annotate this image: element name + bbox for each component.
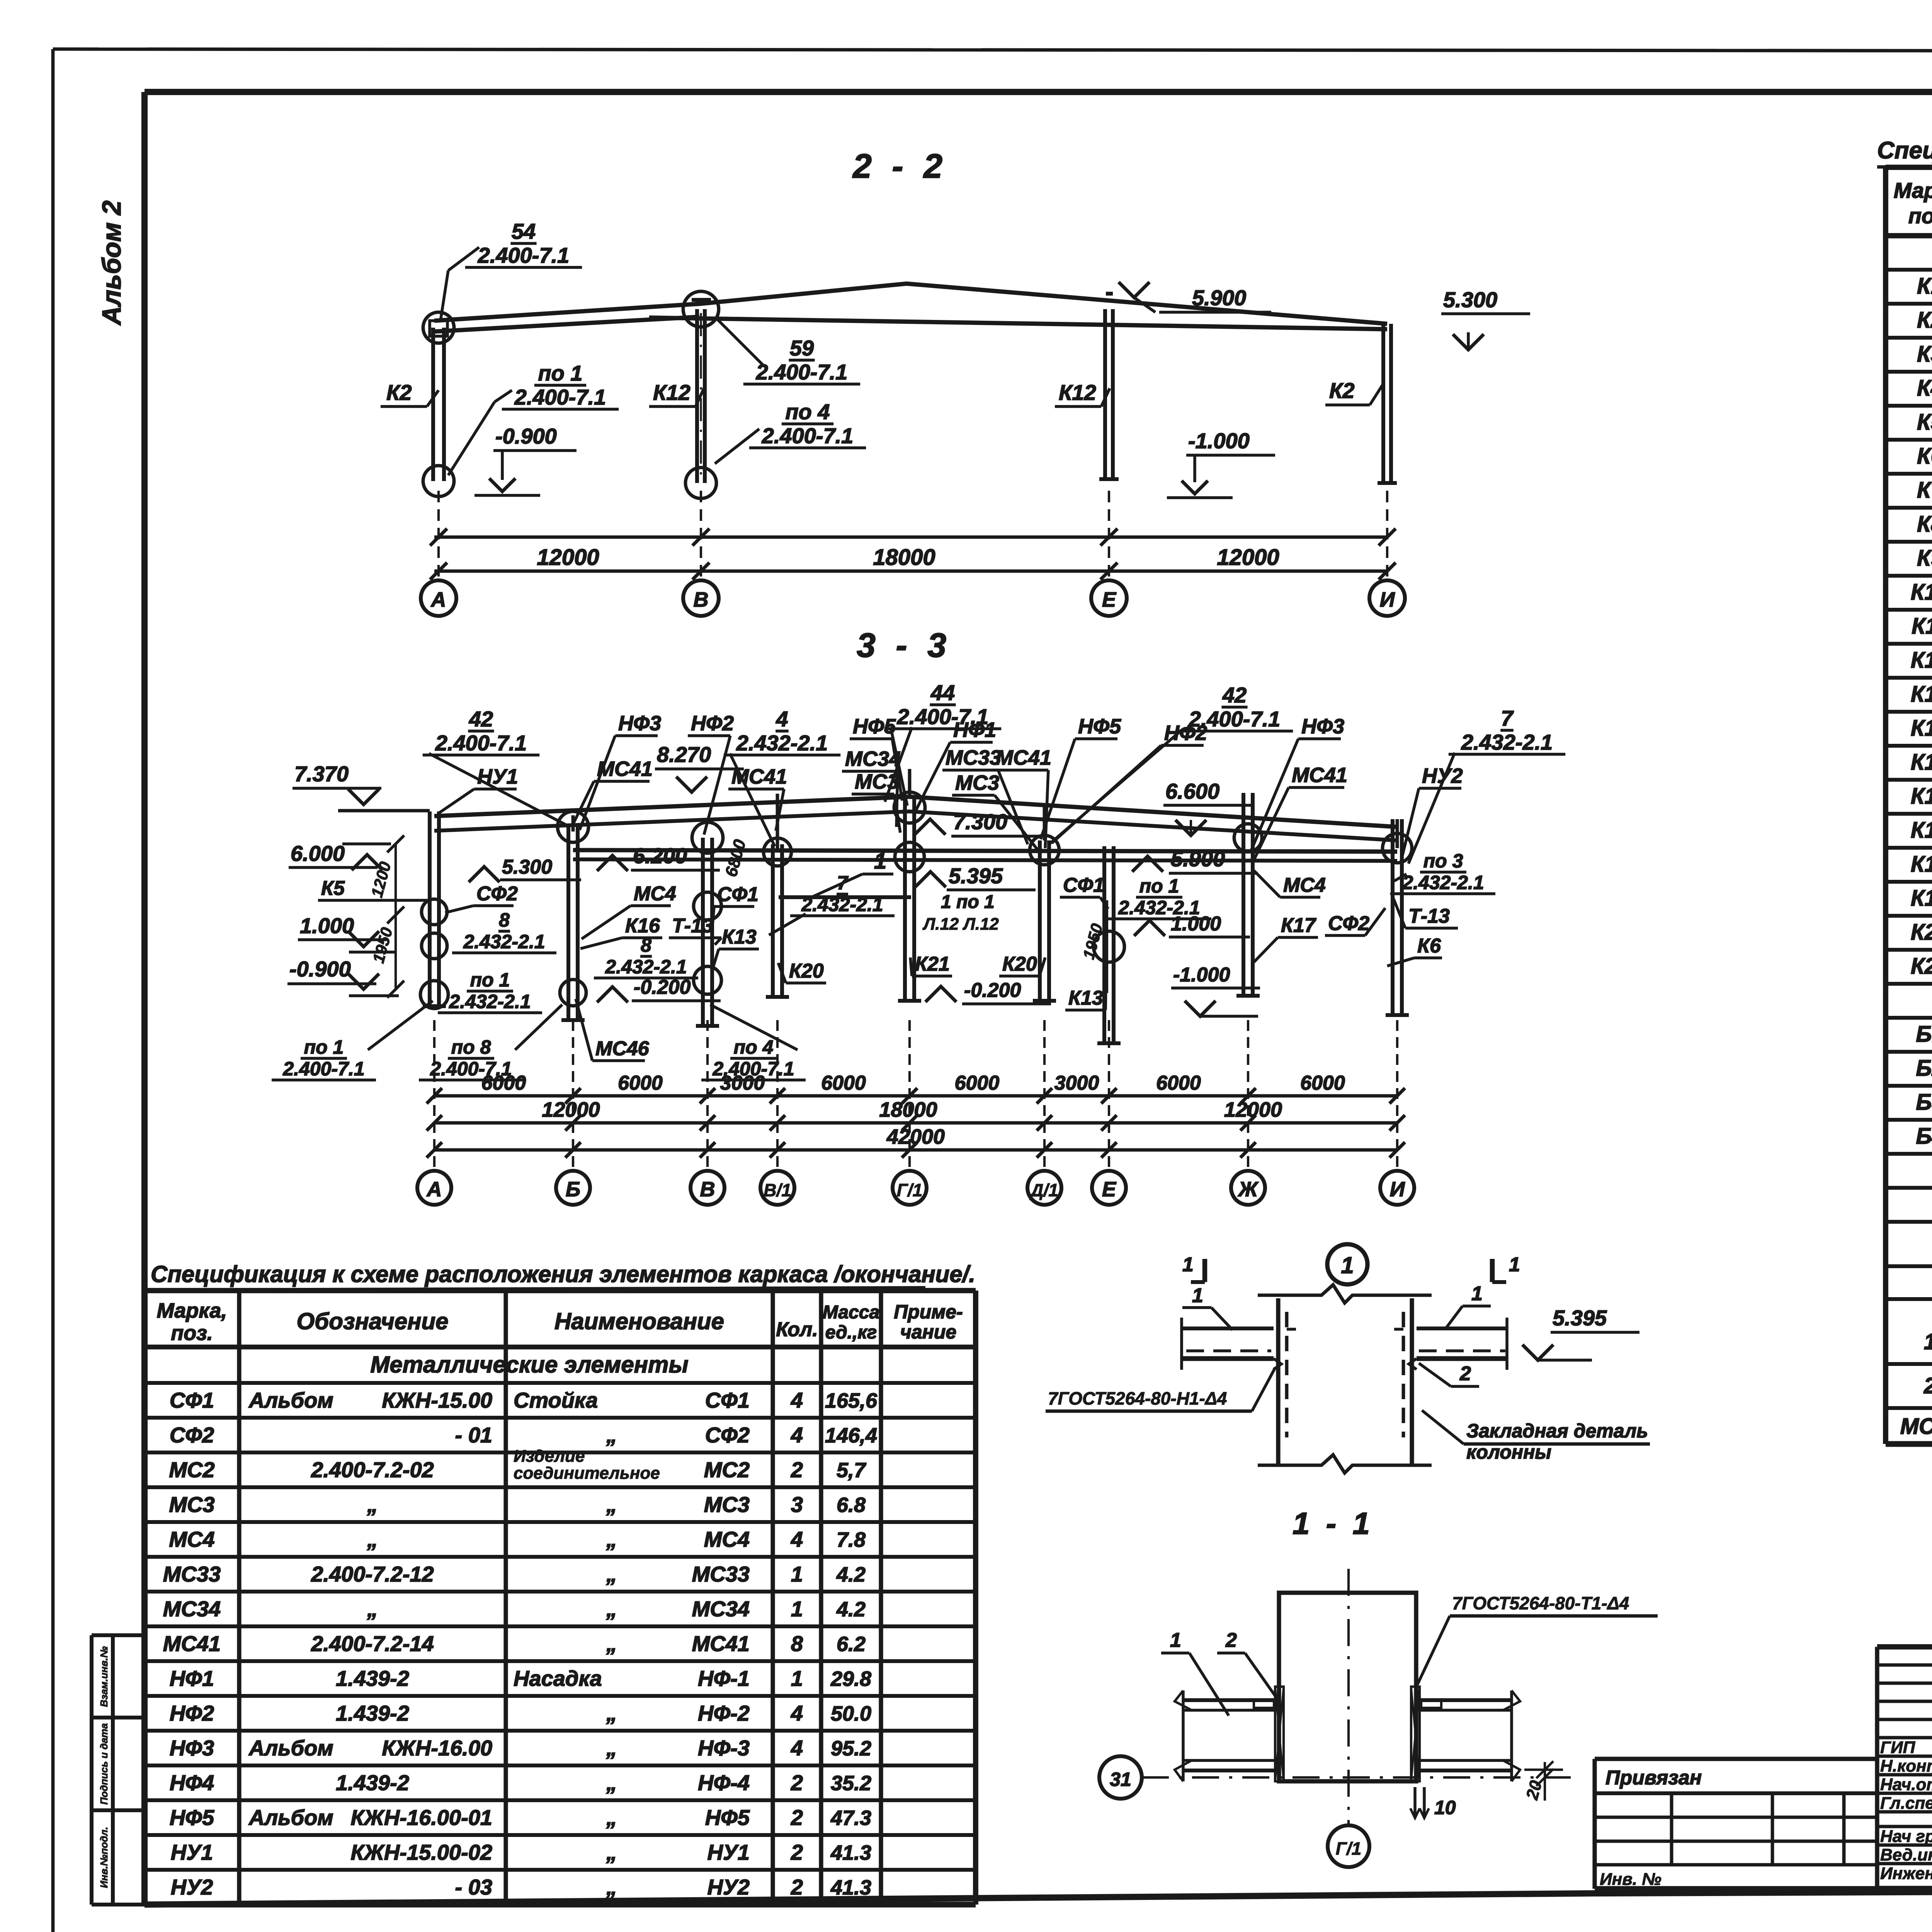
- svg-text:54: 54: [512, 219, 536, 243]
- 3-3 vertical dim 1200: [395, 844, 397, 989]
- svg-text:10: 10: [1434, 1797, 1456, 1818]
- svg-text:„: „: [367, 1492, 378, 1517]
- svg-text:Д/1: Д/1: [1029, 1180, 1058, 1200]
- svg-text:4: 4: [791, 1701, 803, 1725]
- left spec table grid: [145, 1288, 976, 1293]
- 1-1 dim 10: [1413, 1787, 1417, 1818]
- svg-text:2.432-2.1: 2.432-2.1: [605, 956, 687, 978]
- svg-text:МС3: МС3: [704, 1492, 750, 1517]
- svg-text:Альбом: Альбом: [248, 1736, 333, 1760]
- svg-text:2.400-7.1: 2.400-7.1: [478, 243, 570, 267]
- svg-text:МС41: МС41: [163, 1631, 221, 1656]
- svg-text:-0.900: -0.900: [289, 957, 351, 981]
- svg-text:К13: К13: [722, 926, 757, 948]
- svg-text:НФ2: НФ2: [1164, 721, 1207, 745]
- svg-text:6000: 6000: [955, 1072, 1000, 1094]
- axis circle G/1: [1328, 1825, 1369, 1867]
- svg-text:К1: К1: [1917, 274, 1932, 299]
- svg-text:4: 4: [791, 1388, 803, 1412]
- 3-3 roof lines: [434, 797, 1397, 827]
- svg-text:СФ2: СФ2: [1328, 912, 1369, 935]
- svg-text:6000: 6000: [481, 1072, 526, 1094]
- svg-text:К2: К2: [386, 380, 412, 405]
- svg-text:К20: К20: [789, 960, 824, 982]
- 2-2 column K2 axis A: [431, 328, 435, 481]
- svg-text:1.439-2: 1.439-2: [336, 1770, 409, 1795]
- svg-text:12000: 12000: [1217, 545, 1279, 570]
- svg-text:5.300: 5.300: [502, 856, 552, 878]
- 1-1 right channel: [1421, 1698, 1512, 1702]
- page outer thin border: [53, 49, 1932, 51]
- svg-text:146,4: 146,4: [825, 1424, 877, 1447]
- svg-text:К15: К15: [1911, 750, 1932, 775]
- svg-text:Ж: Ж: [1237, 1178, 1259, 1201]
- svg-text:6000: 6000: [1156, 1072, 1201, 1094]
- svg-text:1: 1: [791, 1597, 803, 1621]
- svg-text:2: 2: [791, 1840, 803, 1864]
- title block signature table: [1877, 1644, 1932, 1650]
- svg-text:ед.,кг: ед.,кг: [825, 1322, 877, 1343]
- svg-text:Кол.: Кол.: [776, 1318, 818, 1341]
- svg-text:Взам.инв.№: Взам.инв.№: [98, 1646, 110, 1707]
- detail1 weld marks: [1274, 1359, 1281, 1369]
- svg-text:НФ3: НФ3: [618, 712, 661, 735]
- svg-text:5.900: 5.900: [1171, 847, 1225, 871]
- svg-text:К5: К5: [321, 877, 345, 900]
- svg-text:5.900: 5.900: [1192, 286, 1246, 310]
- svg-text:К12: К12: [653, 380, 690, 405]
- svg-text:НФ-1: НФ-1: [698, 1666, 750, 1690]
- 2-2 dimension lines: [434, 536, 1387, 539]
- svg-text:СФ2: СФ2: [705, 1423, 750, 1447]
- svg-text:1: 1: [1182, 1253, 1194, 1276]
- svg-text:соединительное: соединительное: [514, 1464, 660, 1483]
- svg-text:2: 2: [791, 1875, 803, 1899]
- svg-text:МС3: МС3: [955, 771, 999, 794]
- svg-text:ГИП: ГИП: [1880, 1738, 1916, 1757]
- svg-text:МС41: МС41: [597, 757, 653, 781]
- 3-3 vert dim 1950 right: [1106, 900, 1108, 993]
- svg-text:„: „: [606, 1736, 617, 1760]
- svg-text:НУ2: НУ2: [171, 1875, 213, 1899]
- svg-text:Б2: Б2: [1916, 1056, 1932, 1081]
- privyazan box: [1595, 1757, 1878, 1761]
- svg-text:Нач гр.: Нач гр.: [1880, 1827, 1932, 1846]
- 2-2 roof beam: [434, 284, 1387, 324]
- svg-text:6000: 6000: [1300, 1072, 1345, 1094]
- 1-1 left plate weld strip: [1275, 1687, 1284, 1781]
- svg-text:СФ1: СФ1: [1063, 874, 1104, 896]
- svg-text:1: 1: [874, 849, 886, 874]
- svg-text:НФ2: НФ2: [170, 1701, 214, 1725]
- svg-text:Альбом 2: Альбом 2: [97, 201, 126, 326]
- svg-text:2.400-7.1: 2.400-7.1: [435, 731, 527, 755]
- svg-text:2: 2: [1923, 1373, 1932, 1398]
- svg-text:-0.900: -0.900: [495, 424, 557, 448]
- 3-3 column at axis Ж: [1242, 793, 1245, 996]
- svg-text:К16: К16: [625, 915, 660, 937]
- svg-text:Н.контр.: Н.контр.: [1880, 1757, 1932, 1776]
- svg-text:К12: К12: [1911, 648, 1932, 673]
- svg-text:К13: К13: [1068, 987, 1103, 1009]
- svg-text:МС46: МС46: [1900, 1414, 1932, 1439]
- 3-3 column at axis Е: [1102, 846, 1106, 1043]
- svg-text:8: 8: [791, 1631, 803, 1656]
- svg-text:3000: 3000: [720, 1072, 765, 1094]
- 3-3 column at axis Г/1: [903, 797, 907, 1001]
- svg-text:18000: 18000: [879, 1098, 937, 1121]
- svg-text:по 8: по 8: [451, 1036, 491, 1058]
- svg-text:КЖН-16.00: КЖН-16.00: [382, 1736, 492, 1760]
- svg-text:К5: К5: [1917, 410, 1932, 435]
- svg-text:1: 1: [791, 1666, 803, 1690]
- svg-text:„: „: [606, 1527, 617, 1551]
- svg-text:Насадка: Насадка: [514, 1666, 602, 1690]
- svg-text:А: А: [426, 1178, 442, 1201]
- svg-text:5,7: 5,7: [837, 1459, 867, 1482]
- svg-text:НУ2: НУ2: [1422, 764, 1463, 787]
- svg-text:по 1: по 1: [538, 361, 582, 385]
- svg-text:-1.000: -1.000: [1188, 429, 1250, 453]
- svg-text:Инв. №: Инв. №: [1600, 1870, 1662, 1889]
- svg-text:8: 8: [499, 909, 510, 931]
- svg-text:МС33: МС33: [946, 746, 1001, 769]
- svg-text:44: 44: [930, 680, 955, 705]
- svg-text:6.000: 6.000: [291, 841, 345, 866]
- svg-text:по 1: по 1: [1139, 875, 1179, 897]
- svg-text:МС33: МС33: [163, 1562, 221, 1586]
- svg-text:„: „: [606, 1701, 617, 1725]
- svg-text:КЖН-15.00: КЖН-15.00: [382, 1388, 492, 1412]
- 3-3 column at axis Д/1: [1038, 840, 1042, 1001]
- svg-text:20: 20: [1522, 1778, 1546, 1802]
- right spec table grid: [1886, 165, 1932, 170]
- svg-text:К18: К18: [1911, 852, 1932, 877]
- svg-text:НУ2: НУ2: [707, 1875, 750, 1899]
- svg-text:4.2: 4.2: [836, 1598, 866, 1621]
- svg-text:Марка,: Марка,: [1894, 178, 1932, 202]
- detail1 column outline: [1276, 1298, 1280, 1464]
- svg-text:К8: К8: [1917, 512, 1932, 537]
- 3-3 column at axis И: [1391, 819, 1395, 1015]
- detail1 right channel beam 1: [1417, 1327, 1507, 1330]
- svg-text:2.400-7.2-12: 2.400-7.2-12: [311, 1562, 434, 1586]
- 3-3 label 44 second leader: [885, 727, 912, 802]
- svg-text:НУ1: НУ1: [707, 1840, 750, 1864]
- 1-1 right plate weld strip: [1411, 1687, 1420, 1781]
- svg-text:К17: К17: [1911, 818, 1932, 843]
- svg-text:Вед.инж: Вед.инж: [1880, 1845, 1932, 1864]
- svg-text:К19: К19: [1911, 886, 1932, 911]
- svg-text:СФ2: СФ2: [170, 1423, 214, 1447]
- svg-text:Б4: Б4: [1916, 1124, 1932, 1149]
- svg-text:Обозначение: Обозначение: [296, 1308, 448, 1334]
- detail1 embedded plates dashed: [1285, 1312, 1289, 1437]
- svg-text:Е: Е: [1102, 588, 1117, 611]
- svg-text:4: 4: [791, 1527, 803, 1551]
- svg-text:СФ1: СФ1: [705, 1388, 750, 1412]
- svg-text:„: „: [606, 1423, 617, 1447]
- svg-text:- 03: - 03: [455, 1875, 493, 1899]
- svg-text:А: А: [430, 588, 446, 611]
- svg-text:СФ1: СФ1: [717, 883, 759, 906]
- drawing frame: [145, 89, 1932, 95]
- svg-text:К3: К3: [1917, 342, 1932, 367]
- svg-text:18000: 18000: [873, 545, 935, 570]
- svg-text:2.400-7.1: 2.400-7.1: [756, 360, 848, 384]
- svg-text:Г/1: Г/1: [1336, 1838, 1362, 1859]
- svg-text:по 1: по 1: [470, 969, 510, 991]
- svg-text:поз.: поз.: [1908, 204, 1932, 228]
- svg-text:по 4: по 4: [734, 1036, 774, 1058]
- svg-text:по 1: по 1: [304, 1036, 344, 1058]
- svg-text:42: 42: [1222, 683, 1247, 707]
- svg-text:35.2: 35.2: [831, 1772, 871, 1795]
- svg-text:КЖН-16.00-01: КЖН-16.00-01: [350, 1805, 492, 1830]
- svg-text:2.432-2.1: 2.432-2.1: [1402, 872, 1484, 893]
- svg-text:1950: 1950: [1079, 922, 1106, 961]
- 3-3 dimension lines: [434, 1094, 1397, 1098]
- 3-3 column at axis В/1: [771, 844, 775, 997]
- svg-text:МС4: МС4: [169, 1527, 214, 1551]
- svg-text:Стойка: Стойка: [514, 1388, 598, 1412]
- svg-text:5.395: 5.395: [949, 864, 1003, 888]
- svg-text:НФ4: НФ4: [170, 1770, 214, 1795]
- svg-text:поз.: поз.: [171, 1321, 213, 1345]
- svg-text:Приме-: Приме-: [894, 1301, 963, 1323]
- svg-text:К20: К20: [1911, 920, 1932, 945]
- svg-text:7ГОСТ5264-80-Т1-Δ4: 7ГОСТ5264-80-Т1-Δ4: [1452, 1593, 1629, 1613]
- svg-text:МС4: МС4: [704, 1527, 750, 1551]
- svg-text:6.2: 6.2: [837, 1633, 866, 1656]
- svg-text:59: 59: [790, 336, 814, 360]
- svg-text:„: „: [606, 1840, 617, 1864]
- svg-text:7.370: 7.370: [294, 762, 349, 786]
- 1-1 horizontal centerline to axis 31: [1142, 1776, 1580, 1779]
- svg-text:Изделие: Изделие: [514, 1447, 585, 1466]
- svg-text:31: 31: [1110, 1769, 1131, 1790]
- svg-text:„: „: [606, 1597, 617, 1621]
- 2-2 column K12 axis E: [1103, 309, 1107, 479]
- svg-text:Г/1: Г/1: [897, 1180, 923, 1200]
- 1-1 left channel: [1183, 1698, 1274, 1702]
- svg-text:Спецификация к схеме распол: Спецификация к схеме расположения элемен…: [1877, 137, 1932, 164]
- svg-text:В/1: В/1: [764, 1180, 791, 1200]
- svg-text:МС4: МС4: [634, 883, 676, 905]
- svg-text:НФ3: НФ3: [1301, 715, 1344, 738]
- svg-text:1.439-2: 1.439-2: [336, 1701, 409, 1725]
- svg-text:К4: К4: [1917, 376, 1932, 401]
- svg-text:Альбом: Альбом: [248, 1805, 333, 1830]
- axis circle 31: [1099, 1756, 1142, 1799]
- svg-text:4.2: 4.2: [836, 1563, 866, 1586]
- svg-text:К17: К17: [1281, 914, 1316, 937]
- svg-text:Спецификация к схеме распол: Спецификация к схеме расположения элемен…: [151, 1261, 975, 1287]
- svg-text:1: 1: [791, 1562, 803, 1586]
- svg-text:7ГОСТ5264-80-Н1-Δ4: 7ГОСТ5264-80-Н1-Δ4: [1048, 1388, 1227, 1408]
- svg-text:К6: К6: [1417, 935, 1441, 957]
- svg-text:1 - 1: 1 - 1: [1293, 1506, 1374, 1541]
- svg-text:чание: чание: [900, 1321, 957, 1343]
- svg-text:Наименование: Наименование: [554, 1308, 724, 1334]
- svg-text:К14: К14: [1911, 716, 1932, 741]
- 3-3 column stubs above circles: [571, 815, 575, 832]
- svg-text:7.300: 7.300: [953, 810, 1007, 834]
- svg-text:50.0: 50.0: [831, 1702, 871, 1725]
- svg-text:К2: К2: [1917, 308, 1932, 333]
- svg-text:МС41: МС41: [1292, 764, 1347, 787]
- svg-text:НУ1: НУ1: [477, 765, 518, 788]
- 2-2 axis circles: [421, 580, 456, 616]
- svg-text:Альбом: Альбом: [248, 1388, 333, 1412]
- svg-text:1.000: 1.000: [1171, 913, 1221, 935]
- svg-text:КЖН-15.00-02: КЖН-15.00-02: [350, 1840, 492, 1864]
- svg-text:К6: К6: [1917, 444, 1932, 469]
- svg-text:„: „: [606, 1875, 617, 1899]
- svg-text:МС46: МС46: [595, 1037, 650, 1060]
- 1-1 vertical centerline: [1347, 1569, 1350, 1825]
- svg-text:„: „: [367, 1527, 378, 1551]
- svg-text:1.000: 1.000: [300, 913, 354, 938]
- detail 1 callout circle: [1327, 1244, 1367, 1284]
- svg-text:К21: К21: [1911, 954, 1932, 979]
- svg-text:СФ2: СФ2: [476, 883, 518, 905]
- svg-text:„: „: [367, 1597, 378, 1621]
- svg-text:по 4: по 4: [785, 400, 830, 424]
- svg-text:НФ5: НФ5: [170, 1805, 214, 1830]
- left margin stamp boxes: [90, 1635, 94, 1905]
- svg-text:К21: К21: [915, 953, 950, 975]
- svg-text:47.3: 47.3: [830, 1806, 871, 1830]
- svg-text:Закладная деталь: Закладная деталь: [1466, 1420, 1648, 1442]
- 3-3 column at axis А: [428, 811, 432, 1006]
- svg-text:МС34: МС34: [692, 1597, 750, 1621]
- svg-text:6000: 6000: [618, 1072, 663, 1094]
- svg-text:1: 1: [1471, 1282, 1483, 1305]
- svg-text:МС3: МС3: [855, 770, 899, 793]
- svg-text:4: 4: [776, 707, 788, 731]
- svg-text:-1.000: -1.000: [1173, 964, 1230, 986]
- svg-text:12000: 12000: [1224, 1098, 1282, 1121]
- svg-text:„: „: [606, 1562, 617, 1586]
- svg-text:2: 2: [1225, 1629, 1237, 1651]
- svg-text:НФ-4: НФ-4: [698, 1770, 750, 1795]
- svg-text:1: 1: [1509, 1253, 1520, 1276]
- svg-text:2.432-2.1: 2.432-2.1: [1461, 730, 1553, 754]
- svg-text:К20: К20: [1002, 953, 1037, 975]
- svg-text:МС4: МС4: [1283, 874, 1326, 896]
- svg-text:6.200: 6.200: [633, 844, 687, 868]
- svg-text:42000: 42000: [886, 1125, 945, 1148]
- 1-1 column rect: [1279, 1593, 1416, 1781]
- svg-text:Б1: Б1: [1916, 1022, 1932, 1047]
- 3-3 column at axis Б: [566, 827, 570, 1020]
- svg-text:1: 1: [1924, 1329, 1932, 1354]
- svg-text:МС41: МС41: [692, 1631, 750, 1656]
- svg-text:6.8: 6.8: [837, 1493, 866, 1517]
- 3-3 column at axis В: [701, 838, 705, 1026]
- svg-text:7: 7: [837, 872, 849, 894]
- 2-2 column K12 axis B: [695, 309, 699, 483]
- svg-text:41.3: 41.3: [830, 1876, 871, 1899]
- svg-text:1: 1: [1170, 1629, 1181, 1651]
- svg-text:5.300: 5.300: [1443, 287, 1497, 312]
- svg-text:МС2: МС2: [169, 1458, 214, 1482]
- svg-text:К2: К2: [1329, 378, 1355, 403]
- svg-text:НФ-2: НФ-2: [698, 1701, 750, 1725]
- svg-text:2: 2: [1459, 1362, 1471, 1385]
- svg-text:41.3: 41.3: [830, 1841, 871, 1864]
- svg-text:2: 2: [791, 1770, 803, 1795]
- svg-text:НФ5: НФ5: [853, 715, 896, 738]
- svg-text:К11: К11: [1912, 614, 1932, 639]
- svg-text:К13: К13: [1911, 682, 1932, 707]
- svg-text:165,6: 165,6: [825, 1389, 878, 1412]
- svg-text:НФ5: НФ5: [1078, 715, 1121, 738]
- svg-text:7.8: 7.8: [837, 1528, 866, 1551]
- svg-text:8.270: 8.270: [657, 742, 711, 767]
- svg-text:Привязан: Привязан: [1605, 1767, 1702, 1789]
- svg-text:МС41: МС41: [996, 746, 1051, 769]
- svg-text:К9: К9: [1917, 546, 1932, 571]
- svg-text:29.8: 29.8: [830, 1667, 871, 1690]
- svg-text:1950: 1950: [369, 925, 396, 965]
- svg-text:НУ1: НУ1: [171, 1840, 213, 1864]
- svg-text:СФ1: СФ1: [170, 1388, 214, 1412]
- svg-text:1: 1: [1192, 1284, 1203, 1307]
- svg-text:НФ1: НФ1: [170, 1666, 214, 1690]
- svg-text:В: В: [700, 1178, 715, 1201]
- svg-text:Металлические элементы: Металлические элементы: [370, 1352, 688, 1378]
- svg-text:К16: К16: [1911, 784, 1932, 809]
- detail1 section marks 1-1: [1202, 1259, 1207, 1282]
- svg-text:3: 3: [791, 1492, 803, 1517]
- svg-text:3000: 3000: [1054, 1072, 1099, 1094]
- svg-text:2.400-7.2-14: 2.400-7.2-14: [311, 1631, 434, 1656]
- svg-text:Масса: Масса: [823, 1302, 879, 1323]
- 1-1 dim 20: [1524, 1769, 1563, 1771]
- svg-text:6000: 6000: [821, 1072, 866, 1094]
- svg-text:„: „: [606, 1492, 617, 1517]
- svg-text:МС34: МС34: [163, 1597, 221, 1621]
- svg-text:НФ3: НФ3: [170, 1736, 214, 1760]
- svg-text:по 3: по 3: [1423, 850, 1463, 872]
- svg-text:Е: Е: [1102, 1178, 1117, 1201]
- svg-text:8: 8: [641, 934, 651, 956]
- svg-text:12000: 12000: [542, 1098, 600, 1121]
- svg-text:95.2: 95.2: [831, 1737, 871, 1760]
- svg-text:7: 7: [1501, 706, 1514, 730]
- svg-text:Подпись и дата: Подпись и дата: [98, 1723, 110, 1805]
- svg-text:К12: К12: [1059, 380, 1096, 405]
- svg-text:1200: 1200: [367, 860, 395, 899]
- svg-text:„: „: [606, 1805, 617, 1830]
- svg-text:2.400-7.1: 2.400-7.1: [514, 385, 606, 409]
- svg-text:2.400-7.1: 2.400-7.1: [762, 423, 854, 448]
- svg-text:4: 4: [791, 1423, 803, 1447]
- svg-text:МС33: МС33: [692, 1562, 750, 1586]
- svg-text:НФ-3: НФ-3: [698, 1736, 750, 1760]
- svg-text:Инженер: Инженер: [1880, 1864, 1932, 1883]
- svg-text:Л.12 Л.12: Л.12 Л.12: [922, 915, 999, 934]
- svg-text:К10: К10: [1911, 580, 1932, 605]
- svg-text:2.400-7.1: 2.400-7.1: [282, 1058, 364, 1080]
- svg-text:Т-13: Т-13: [672, 915, 713, 937]
- svg-text:И: И: [1380, 588, 1395, 611]
- svg-text:НФ5: НФ5: [705, 1805, 750, 1830]
- svg-text:Т-13: Т-13: [1408, 905, 1450, 927]
- svg-text:„: „: [606, 1770, 617, 1795]
